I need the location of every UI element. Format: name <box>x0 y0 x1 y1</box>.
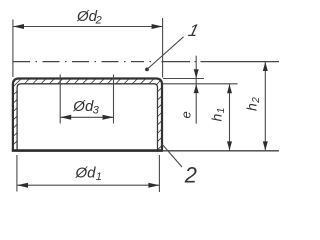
svg-text:1: 1 <box>216 108 227 114</box>
svg-text:1: 1 <box>96 171 102 183</box>
svg-text:Ød: Ød <box>75 165 97 182</box>
svg-text:Ød: Ød <box>72 98 94 115</box>
svg-text:2: 2 <box>184 163 197 188</box>
svg-text:2: 2 <box>251 97 262 104</box>
svg-text:e: e <box>179 111 194 118</box>
svg-text:h: h <box>244 103 260 111</box>
svg-text:3: 3 <box>93 104 100 116</box>
svg-text:h: h <box>209 114 225 122</box>
svg-text:Ød: Ød <box>76 8 98 25</box>
svg-text:2: 2 <box>95 15 102 27</box>
